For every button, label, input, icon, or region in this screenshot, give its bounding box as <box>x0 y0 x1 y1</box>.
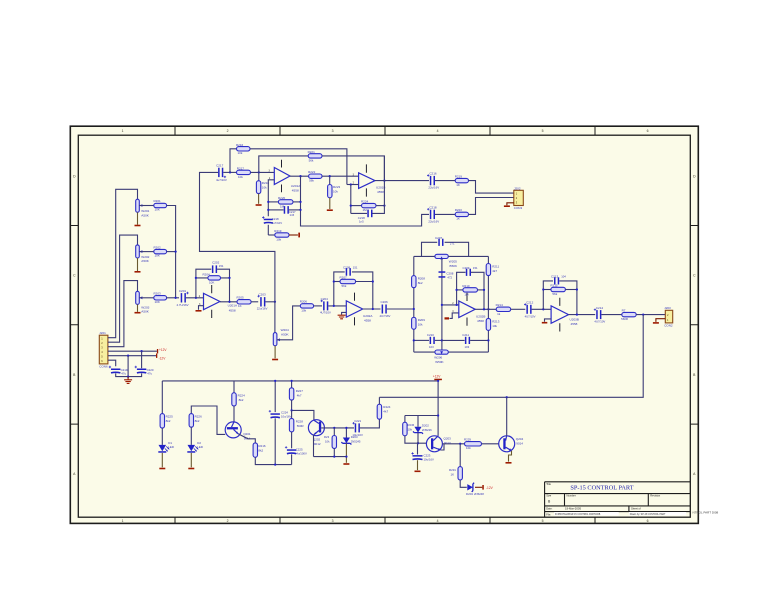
svg-text:8k2: 8k2 <box>166 419 171 423</box>
svg-text:R205: R205 <box>237 296 245 300</box>
ground J203 <box>653 322 659 324</box>
capacitor C225 electrolytic <box>287 449 296 451</box>
svg-text:-12V: -12V <box>486 486 494 490</box>
wire C217 to R217 junction <box>223 171 236 173</box>
wire R204 row <box>196 277 230 279</box>
wire Q203 emitter to R229 <box>441 444 444 450</box>
wire C207 parallel loop <box>422 242 438 256</box>
resistor R230 <box>404 416 406 423</box>
svg-text:+12V: +12V <box>433 375 441 379</box>
wire LED2 branch from Q201 base <box>191 406 225 434</box>
wire R220 to right <box>293 201 301 203</box>
svg-text:R219: R219 <box>455 174 463 178</box>
resistor R227 <box>189 414 193 428</box>
svg-text:10k: 10k <box>301 308 306 312</box>
resistor R210 <box>463 288 478 292</box>
wire Q202 emitter down <box>313 435 316 457</box>
wire node A down to W204 <box>274 302 276 333</box>
svg-text:4.7U/16V: 4.7U/16V <box>177 303 189 307</box>
resistor R214 <box>496 307 511 311</box>
ground Q204 <box>506 462 512 464</box>
capacitor C219 <box>111 369 120 371</box>
power port -12V <box>156 354 157 358</box>
resistor R219 lower <box>275 233 289 237</box>
svg-text:C209: C209 <box>343 266 351 270</box>
wire LED1 to ground <box>161 453 163 467</box>
wire R206 to C204 <box>314 305 322 307</box>
wire R225 to Q201 collector <box>233 406 235 422</box>
svg-text:Number: Number <box>567 494 576 498</box>
svg-text:R204: R204 <box>203 272 211 276</box>
wire U202B output <box>475 308 496 310</box>
svg-text:151: 151 <box>473 266 478 270</box>
zener diode D204 <box>467 484 473 490</box>
svg-text:1M: 1M <box>464 292 469 296</box>
wire C203 to node A <box>265 301 275 303</box>
wire J203 net down to bottom rail <box>379 315 643 398</box>
svg-text:R236: R236 <box>408 423 415 427</box>
svg-text:C207: C207 <box>435 236 443 240</box>
svg-text:104: 104 <box>561 275 566 279</box>
wire W204 wiper up to R206 <box>277 306 300 340</box>
wire J203 pin2 ground <box>656 319 665 322</box>
svg-text:47u: 47u <box>121 372 126 376</box>
wire to R221 feedback <box>259 156 308 173</box>
svg-text:1n5: 1n5 <box>359 219 364 223</box>
wire D202 to base row <box>417 433 419 444</box>
wire D204 to -12V <box>475 486 482 488</box>
svg-text:2: 2 <box>227 129 229 133</box>
resistor R217 <box>237 170 251 174</box>
wire R230 to base row <box>405 436 427 443</box>
svg-text:1n5: 1n5 <box>290 213 295 217</box>
svg-text:Drawn by: SP-15 CONTROL PART: Drawn by: SP-15 CONTROL PART <box>630 513 666 516</box>
resistor R206 <box>300 304 313 308</box>
wire C224 branch <box>274 381 276 412</box>
wire C221 to R224b corner <box>360 419 380 428</box>
svg-text:U201A: U201A <box>291 184 301 188</box>
wire R7 to J203 <box>636 314 665 316</box>
svg-text:22u/16V: 22u/16V <box>428 219 439 223</box>
resistor R228 emitter <box>253 443 257 457</box>
svg-text:47u: 47u <box>147 372 152 376</box>
wire C209b to right <box>471 272 484 309</box>
svg-text:2N5245: 2N5245 <box>351 439 361 443</box>
svg-text:4U7/16V: 4U7/16V <box>380 314 391 318</box>
svg-text:U202A: U202A <box>363 314 373 318</box>
svg-text:D203: D203 <box>351 435 358 439</box>
svg-text:C212: C212 <box>526 301 534 305</box>
diode D203 <box>345 428 347 438</box>
resistor R231 <box>458 467 462 480</box>
svg-text:SP-15 CONTROL PART: SP-15 CONTROL PART <box>570 485 633 492</box>
wire W205 to right <box>448 255 488 257</box>
svg-text:22u/16V: 22u/16V <box>428 186 439 190</box>
svg-text:1k: 1k <box>497 312 501 316</box>
wire R224 to right vertical <box>376 205 384 207</box>
capacitor C208 <box>439 271 446 273</box>
wire Q202 bottom row <box>314 456 347 458</box>
op-amp U201A <box>204 293 220 309</box>
wire C219 to right vertical <box>289 209 301 211</box>
svg-text:C210: C210 <box>427 333 434 337</box>
ground U202A chassis <box>338 315 346 319</box>
svg-text:R216: R216 <box>236 143 244 147</box>
wire R224 row <box>351 205 362 207</box>
svg-text:R206: R206 <box>300 300 308 304</box>
svg-text:R213: R213 <box>492 319 500 323</box>
wire U202A in+ ground <box>342 312 347 314</box>
capacitor C220 <box>137 369 146 371</box>
capacitor C203 <box>260 297 262 306</box>
svg-text:W50K: W50K <box>435 360 444 364</box>
resistor R220 feedback <box>278 200 293 204</box>
svg-text:103: 103 <box>465 345 470 349</box>
svg-text:10u/16V: 10u/16V <box>424 457 435 461</box>
svg-text:4558: 4558 <box>292 188 299 192</box>
resistor R215 <box>551 287 566 291</box>
svg-text:Revision: Revision <box>650 494 661 498</box>
capacitor C224 electrolytic <box>271 413 280 415</box>
wire tone box left vertical <box>413 256 415 352</box>
power port +12V bottom <box>434 379 442 381</box>
svg-text:U203B: U203B <box>570 318 579 322</box>
svg-text:10K: 10K <box>155 254 160 258</box>
svg-text:19-Mar-2005: 19-Mar-2005 <box>565 507 581 511</box>
wire C218 row <box>351 212 367 214</box>
svg-text:8k2: 8k2 <box>239 398 244 402</box>
capacitor C221 <box>355 423 357 432</box>
title block frame <box>545 482 691 517</box>
capacitor C217 <box>218 168 220 177</box>
wire R215 to right vertical <box>565 289 577 291</box>
svg-text:B50K: B50K <box>450 264 459 268</box>
ground U203B in+ <box>542 322 548 324</box>
svg-text:10k: 10k <box>276 237 281 241</box>
connector J203 <box>665 310 672 323</box>
svg-text:10K: 10K <box>155 300 160 304</box>
wire C210 row <box>414 339 429 341</box>
wire C216 to R219 <box>435 180 455 182</box>
wire pin5 gnd drop <box>127 356 129 377</box>
svg-text:R222: R222 <box>308 170 316 174</box>
wire R207 row <box>334 281 340 283</box>
wire J201 pin5 -12V <box>108 355 156 357</box>
svg-text:8k2: 8k2 <box>195 419 200 423</box>
svg-text:10K: 10K <box>155 208 160 212</box>
svg-text:4u7/10V: 4u7/10V <box>216 178 227 182</box>
svg-text:J202: J202 <box>514 186 521 190</box>
LED D2 <box>188 445 196 451</box>
wire J201 pin4 +12V <box>108 350 157 352</box>
svg-text:R203: R203 <box>154 292 162 296</box>
svg-text:4U7/10V: 4U7/10V <box>525 314 536 318</box>
wire R221 to U201B output <box>322 156 384 181</box>
wire R202 to bus <box>167 251 176 253</box>
svg-text:R224: R224 <box>361 200 369 204</box>
svg-text:Date:: Date: <box>546 507 552 511</box>
resistor R218 <box>258 172 260 180</box>
svg-text:10k: 10k <box>325 439 330 443</box>
svg-text:R202: R202 <box>154 245 162 249</box>
wire +12V rail <box>162 380 438 382</box>
wire R227 to LED2 <box>190 427 192 445</box>
zone tick marks <box>70 126 698 523</box>
capacitor C209b <box>466 269 468 276</box>
wire R201 to bus <box>167 206 176 298</box>
svg-text:22u/16V: 22u/16V <box>257 307 268 311</box>
svg-text:CON3: CON3 <box>514 206 523 210</box>
transistor Q201 <box>225 422 241 438</box>
wire C220 top to pin4 net <box>141 351 143 368</box>
transistor Q204 <box>499 436 515 452</box>
wire C222 to R220 <box>435 213 455 215</box>
svg-text:+12V: +12V <box>159 348 167 352</box>
resistor R202 <box>154 249 167 253</box>
svg-text:R221: R221 <box>308 150 316 154</box>
svg-text:R216: R216 <box>258 444 266 448</box>
wire C218 to right vertical <box>373 156 385 214</box>
wire R-branch x291 <box>291 381 293 388</box>
wire U201B output row <box>375 180 429 182</box>
wire C219 row <box>268 209 283 211</box>
svg-text:C206: C206 <box>381 300 389 304</box>
svg-text:4k7: 4k7 <box>492 269 497 273</box>
potentiometer W205 <box>435 254 448 258</box>
op-amp U202A <box>346 301 362 317</box>
svg-text:R220: R220 <box>278 196 286 200</box>
svg-text:4558: 4558 <box>477 319 484 323</box>
svg-text:2N5226: 2N5226 <box>422 428 432 432</box>
svg-text:Sheet of: Sheet of <box>631 507 641 511</box>
svg-text:Q202: Q202 <box>313 437 321 441</box>
wire R226 to LED1 <box>161 428 163 445</box>
wire C206 to tone box <box>387 308 414 310</box>
resistor R216 <box>237 147 251 151</box>
svg-text:4558: 4558 <box>364 319 371 323</box>
svg-text:R209: R209 <box>418 318 426 322</box>
svg-text:6: 6 <box>647 519 649 523</box>
svg-text:R231: R231 <box>449 468 456 472</box>
svg-text:Title: Title <box>546 482 551 486</box>
svg-text:151: 151 <box>353 266 358 270</box>
svg-text:Q203: Q203 <box>444 437 452 441</box>
wire junction up to R216 <box>230 149 237 173</box>
svg-text:W204: W204 <box>281 328 289 332</box>
svg-text:10k: 10k <box>408 427 413 431</box>
svg-text:10k: 10k <box>418 323 423 327</box>
wire R217 to U201A2 in <box>251 171 275 173</box>
capacitor C219 feedback <box>284 206 286 214</box>
svg-text:4558: 4558 <box>229 309 236 313</box>
svg-text:10k: 10k <box>238 175 243 179</box>
svg-text:LED: LED <box>168 445 174 449</box>
resistor R229a <box>289 388 293 400</box>
svg-text:4558: 4558 <box>571 322 578 326</box>
wire C211 row <box>442 339 465 341</box>
ground U201A in+ <box>196 310 202 312</box>
op-amp U203B <box>551 306 568 323</box>
wire R220 to J202 pin2 <box>469 198 514 215</box>
svg-text:R220: R220 <box>455 208 463 212</box>
capacitor C222 bottom path <box>430 210 432 219</box>
svg-text:4u/100V: 4u/100V <box>296 452 307 456</box>
svg-text:C217: C217 <box>216 164 224 168</box>
wire bottom feed from R220 box <box>301 176 430 226</box>
wire to R219g <box>268 234 275 236</box>
resistor R225 collector <box>233 381 235 393</box>
svg-text:D204: D204 <box>466 492 473 496</box>
wire J201 pin6 down to C219 <box>108 360 116 366</box>
wire R222 to U201B in+ <box>322 175 359 177</box>
wire U201B feedback loop <box>350 185 352 214</box>
svg-text:151: 151 <box>219 264 224 268</box>
svg-text:10k: 10k <box>262 186 267 190</box>
resistor R232 <box>333 428 335 436</box>
wire C210 to wiper vertical <box>435 339 442 341</box>
wire R228 to bottom row <box>255 457 291 464</box>
wire R205 to C203 <box>251 301 258 303</box>
wire in- net vertical segments <box>267 225 269 235</box>
wire R207 to right vertical <box>356 281 373 283</box>
wire U201B in- row <box>347 184 359 186</box>
resistor R224b <box>377 404 381 419</box>
transistor Q202 <box>308 420 324 436</box>
svg-text:R210: R210 <box>462 284 470 288</box>
svg-text:56k: 56k <box>309 158 314 162</box>
ground J201 chassis <box>127 377 129 380</box>
inner border frame <box>78 135 690 517</box>
svg-text:C216: C216 <box>429 172 437 176</box>
wire R219 to J202 pin1 <box>469 181 514 194</box>
svg-text:10K: 10K <box>209 281 214 285</box>
svg-text:9013: 9013 <box>444 441 451 445</box>
svg-text:W206: W206 <box>434 356 442 360</box>
svg-text:3: 3 <box>332 129 334 133</box>
svg-text:R225: R225 <box>166 415 174 419</box>
svg-text:1K: 1K <box>451 472 455 476</box>
capacitor C218 <box>367 210 369 218</box>
resistor R222 <box>309 174 322 178</box>
potentiometer W202 <box>136 245 140 258</box>
resistor R208 <box>412 276 416 288</box>
resistor R211 <box>486 264 490 276</box>
svg-text:56k: 56k <box>552 292 557 296</box>
connector J202 <box>514 190 524 205</box>
svg-text:10k: 10k <box>466 446 471 450</box>
wire node A up to C217 <box>200 172 275 301</box>
wire W201 wiper to R201 <box>139 205 154 207</box>
wire R229a to Q202 collector <box>292 400 314 420</box>
svg-text:A50K: A50K <box>141 310 150 314</box>
svg-text:D202: D202 <box>422 423 429 427</box>
ground R223 <box>329 198 331 209</box>
wire U201A2 output row <box>290 175 309 177</box>
svg-text:4558: 4558 <box>377 190 384 194</box>
wire R210 row <box>457 289 463 291</box>
wire R228b to C225 <box>291 432 293 448</box>
ground W204 <box>274 346 276 359</box>
svg-text:R229: R229 <box>464 438 471 442</box>
svg-text:1: 1 <box>122 519 124 523</box>
wire Q201 emitter to R228 <box>238 434 255 443</box>
svg-text:472: 472 <box>447 275 452 279</box>
svg-text:2: 2 <box>227 519 229 523</box>
wire R230 zener row <box>405 415 438 417</box>
power port +12V <box>157 349 158 353</box>
wire J201 pin1 to W201 top <box>108 189 138 337</box>
wire J201 pin2 to W202 top <box>108 235 138 342</box>
svg-text:A50K: A50K <box>141 259 150 263</box>
wire J201 pin3 to W203 top <box>108 281 138 347</box>
wire U202B in+ ground <box>450 313 459 319</box>
svg-text:U202B: U202B <box>476 315 485 319</box>
capacitor C212 <box>526 305 528 314</box>
capacitor C204 <box>323 301 325 310</box>
ground C223 <box>415 471 421 473</box>
potentiometer W203 <box>136 291 140 304</box>
svg-text:R224: R224 <box>383 405 391 409</box>
wire C212 to U203B <box>532 308 552 310</box>
wire R220 row upper <box>268 201 278 203</box>
svg-text:C218: C218 <box>429 205 437 209</box>
resistor R213 <box>486 318 490 330</box>
ground LED1 <box>159 468 165 470</box>
svg-text:Size: Size <box>546 494 552 498</box>
resistor R224 <box>362 203 377 207</box>
resistor R207 <box>340 279 356 283</box>
svg-text:C211: C211 <box>462 333 469 337</box>
svg-text:R228: R228 <box>296 419 304 423</box>
svg-text:4: 4 <box>437 129 439 133</box>
svg-text:1K: 1K <box>456 183 460 187</box>
resistor R221 <box>308 154 322 158</box>
capacitor C216 <box>430 176 432 185</box>
resistor R223 <box>329 176 331 184</box>
svg-text:W205: W205 <box>449 259 457 263</box>
zone numbers and letters <box>73 129 696 523</box>
svg-text:C213: C213 <box>551 275 559 279</box>
wire U202B feedback left vertical <box>457 272 466 305</box>
svg-text:R207: R207 <box>340 275 348 279</box>
wire C204 to U202A <box>328 305 346 307</box>
svg-text:Q204: Q204 <box>516 437 524 441</box>
svg-text:103: 103 <box>429 345 434 349</box>
wire R215 row <box>543 289 551 291</box>
svg-text:A50K: A50K <box>281 333 290 337</box>
svg-text:R215: R215 <box>550 283 558 287</box>
wire U202A output <box>363 308 381 310</box>
ground D203 <box>343 463 349 465</box>
wire D203 to bottom row and ground <box>345 443 347 463</box>
capacitor C201 <box>181 293 183 302</box>
svg-text:File:: File: <box>546 512 551 516</box>
wire LED2 to ground <box>190 453 192 467</box>
wire C225 to bottom row <box>291 454 293 464</box>
svg-text:4k7: 4k7 <box>297 393 302 397</box>
capacitor C218 electrolytic <box>264 219 273 221</box>
svg-text:8k2: 8k2 <box>258 448 263 452</box>
wire R231 branch <box>459 444 461 467</box>
svg-text:CON2: CON2 <box>664 324 673 328</box>
wire J202 pin3 ground <box>507 203 514 205</box>
svg-text:LED: LED <box>197 445 203 449</box>
wire R219g to red terminal <box>289 234 298 236</box>
svg-text:4k7: 4k7 <box>383 410 388 414</box>
svg-text:2N5248: 2N5248 <box>474 492 484 496</box>
svg-text:C203: C203 <box>259 292 267 296</box>
wire C202 to right vertical <box>217 269 229 302</box>
